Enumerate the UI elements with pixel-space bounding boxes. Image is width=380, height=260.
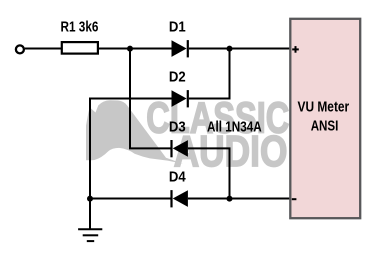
junction dot D4 row right <box>227 196 233 202</box>
svg-text:D4: D4 <box>169 170 186 186</box>
wire D1 to VU plus <box>189 48 290 50</box>
junction dot ground row left <box>87 196 93 202</box>
junction node A <box>227 46 233 52</box>
wire input to R1 <box>25 48 62 50</box>
wire node B down to D3 <box>130 49 171 149</box>
minus terminal <box>292 198 297 200</box>
plus terminal <box>292 46 299 53</box>
wire D2 anode to ground column <box>90 99 172 199</box>
svg-text:ANSI: ANSI <box>311 118 339 134</box>
diode D2 <box>172 90 188 107</box>
diode D4 <box>172 190 188 207</box>
ground <box>78 199 102 242</box>
svg-text:R1 3k6: R1 3k6 <box>61 20 99 36</box>
svg-text:D2: D2 <box>169 70 186 86</box>
resistor R1 <box>62 42 98 54</box>
svg-text:VU Meter: VU Meter <box>298 100 350 116</box>
svg-text:D3: D3 <box>169 119 186 135</box>
wire D3 anode to D4 row <box>188 148 230 198</box>
svg-text:D1: D1 <box>169 20 186 36</box>
VU meter U1 <box>290 19 360 218</box>
diode D1 <box>172 40 188 57</box>
wire R1 to D1 <box>99 48 172 50</box>
junction node B <box>127 46 133 52</box>
svg-text:All 1N34A: All 1N34A <box>207 119 262 135</box>
wire ground to D4 cathode <box>90 198 171 200</box>
wire node A down to D2 cathode <box>189 49 230 99</box>
wire D4 anode to VU minus <box>188 198 290 200</box>
input terminal <box>16 45 24 53</box>
diode D3 <box>172 140 188 157</box>
